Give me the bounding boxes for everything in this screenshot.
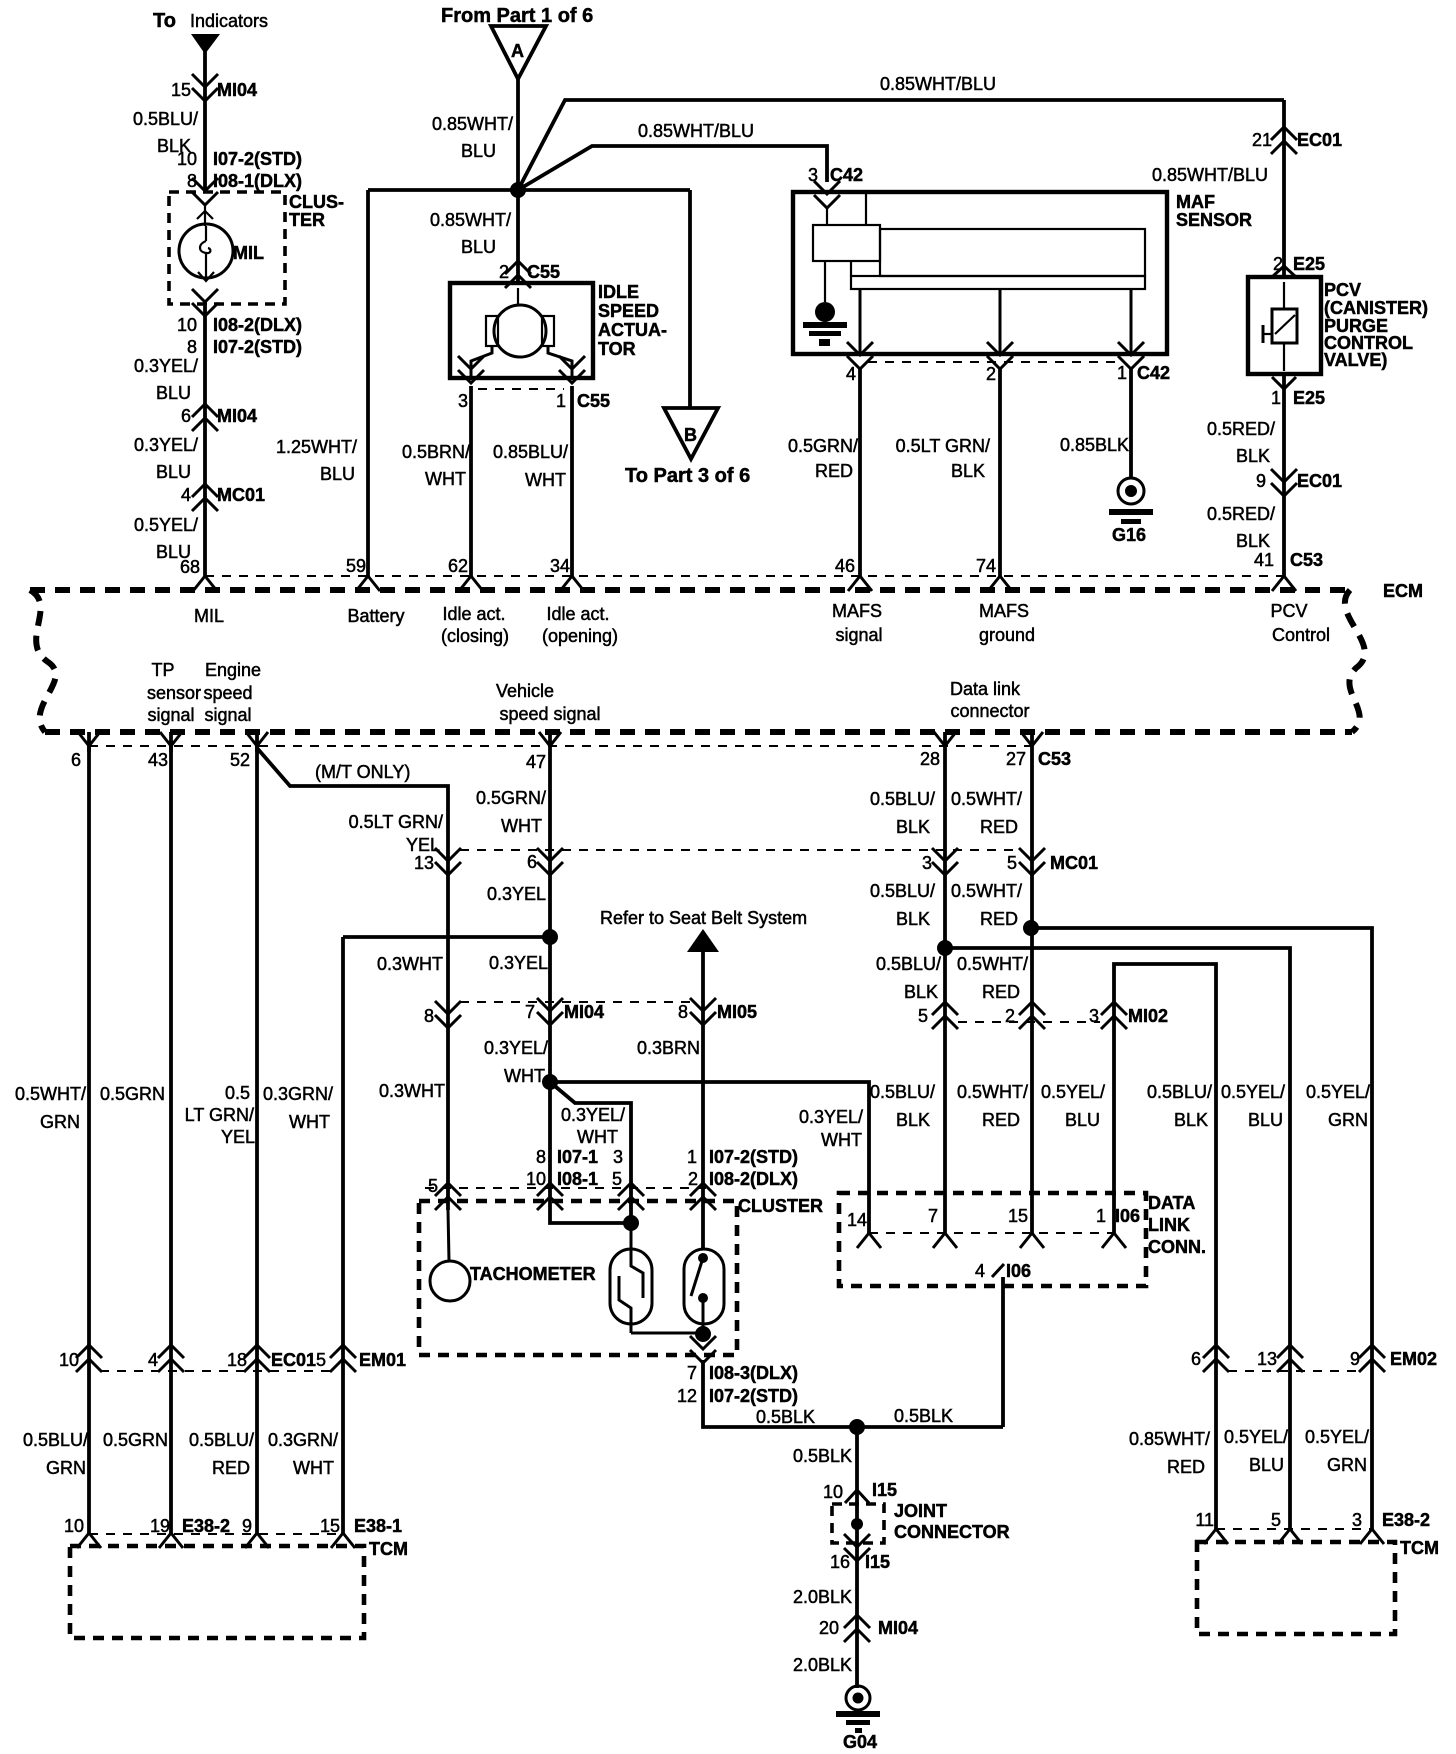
TCM connector dashed line bbox=[1216, 1528, 1372, 1530]
wire K-line tap to right bbox=[945, 948, 1290, 1529]
svg-text:BLK: BLK bbox=[896, 1110, 930, 1130]
connector EM02 pin 6 bbox=[1191, 1345, 1229, 1372]
wire label 0.3YEL/BLU bbox=[134, 435, 198, 482]
ECM pin label Vehicle speed signal bbox=[496, 681, 601, 724]
ground G04 bbox=[836, 1686, 880, 1752]
svg-text:5: 5 bbox=[428, 1176, 438, 1196]
dashed connector row MI02 bbox=[958, 1021, 1100, 1023]
cluster exit connector bbox=[690, 1336, 716, 1363]
svg-text:TCM: TCM bbox=[369, 1539, 408, 1559]
svg-text:0.5GRN/: 0.5GRN/ bbox=[788, 436, 858, 456]
wire label 2.0BLK bbox=[793, 1587, 852, 1607]
svg-text:BLK: BLK bbox=[1174, 1110, 1208, 1130]
svg-text:TCM: TCM bbox=[1400, 1538, 1439, 1558]
cluster box bbox=[419, 1201, 737, 1355]
svg-text:PCV: PCV bbox=[1270, 601, 1307, 621]
wire engine speed signal bbox=[169, 746, 173, 1533]
connector pin 8 bbox=[424, 1001, 461, 1028]
MAF internal element bbox=[813, 194, 1145, 289]
wire data link L (27) bbox=[1030, 752, 1034, 1233]
tachometer bbox=[430, 1210, 470, 1301]
cluster entry connector bbox=[192, 178, 218, 205]
svg-text:CLUS-: CLUS- bbox=[289, 192, 344, 212]
svg-text:I15: I15 bbox=[865, 1552, 890, 1572]
svg-text:0.5BLU/: 0.5BLU/ bbox=[870, 881, 935, 901]
wire label 0.5GRN bbox=[100, 1084, 165, 1104]
wire label 0.5WHT/GRN bbox=[15, 1084, 86, 1132]
svg-text:RED: RED bbox=[980, 817, 1018, 837]
wire label 1.25WHT/BLU bbox=[276, 437, 357, 484]
cluster entry connectors bbox=[537, 1183, 644, 1210]
svg-text:TP: TP bbox=[151, 660, 174, 680]
motor M1 (idle actuator) bbox=[486, 288, 554, 357]
ECM connector dashed line C53 top bbox=[205, 575, 1284, 577]
svg-text:GRN: GRN bbox=[46, 1458, 86, 1478]
svg-text:connector: connector bbox=[950, 701, 1029, 721]
wire label 0.3YEL bbox=[487, 884, 546, 904]
MAF internal ground bbox=[803, 261, 847, 346]
wire MAF pin 1 bbox=[1118, 289, 1144, 369]
svg-text:0.5RED/: 0.5RED/ bbox=[1207, 419, 1275, 439]
svg-text:RED: RED bbox=[980, 909, 1018, 929]
svg-text:15: 15 bbox=[1008, 1206, 1028, 1226]
svg-text:TACHOMETER: TACHOMETER bbox=[470, 1264, 596, 1284]
svg-text:7: 7 bbox=[525, 1002, 535, 1022]
wire DLC pin 4 ground bbox=[1001, 1277, 1005, 1427]
svg-text:15: 15 bbox=[171, 80, 191, 100]
connector pin 13 bbox=[414, 848, 461, 875]
svg-text:0.3YEL/: 0.3YEL/ bbox=[561, 1105, 625, 1125]
connector I08-2(DLX) pin 10 / I07-2(STD) pin 8 bbox=[177, 315, 302, 357]
wire label 0.85WHT/BLU ISA bbox=[430, 210, 511, 257]
connector MI02 pin 3 bbox=[1089, 1002, 1168, 1029]
svg-text:0.85WHT/: 0.85WHT/ bbox=[432, 114, 513, 134]
TCM connector dashed line bbox=[89, 1533, 343, 1535]
ECM connector dashed line bottom bbox=[89, 745, 1032, 747]
DLC pin 15 bbox=[1008, 1206, 1044, 1248]
svg-text:0.85WHT/: 0.85WHT/ bbox=[430, 210, 511, 230]
svg-text:BLU: BLU bbox=[1065, 1110, 1100, 1130]
svg-text:BLU: BLU bbox=[156, 462, 191, 482]
node tach tap bbox=[542, 1074, 558, 1090]
svg-text:34: 34 bbox=[550, 556, 570, 576]
svg-text:I08-1: I08-1 bbox=[557, 1169, 598, 1189]
wire label 0.3WHT bbox=[379, 1081, 445, 1101]
cluster entry pin 5 bbox=[428, 1176, 461, 1210]
wire M/T branch bbox=[257, 748, 448, 1210]
connector I07-2(STD) pin 1 / I08-2(DLX) pin 2 bbox=[687, 1147, 798, 1189]
wire label 0.5BLU/BLK bbox=[133, 109, 198, 156]
label PCV (CANISTER) PURGE CONTROL VALVE) bbox=[1324, 280, 1428, 370]
svg-text:I07-2(STD): I07-2(STD) bbox=[213, 149, 302, 169]
svg-text:EM02: EM02 bbox=[1390, 1349, 1437, 1369]
svg-text:3: 3 bbox=[1089, 1006, 1099, 1026]
wire cluster ground 0.5BLK bbox=[703, 1360, 1003, 1427]
svg-text:C53: C53 bbox=[1038, 749, 1071, 769]
cluster exit connector bbox=[192, 272, 218, 316]
svg-text:Data link: Data link bbox=[950, 679, 1021, 699]
svg-text:0.3YEL: 0.3YEL bbox=[489, 953, 548, 973]
wire label 0.3WHT bbox=[377, 954, 443, 974]
svg-text:0.5BLK: 0.5BLK bbox=[756, 1407, 815, 1427]
label To Part 3 of 6 bbox=[625, 465, 750, 487]
svg-text:8: 8 bbox=[187, 337, 197, 357]
connector MI04 pin 15 bbox=[171, 74, 257, 101]
svg-text:I07-2(STD): I07-2(STD) bbox=[709, 1386, 798, 1406]
svg-text:BLU: BLU bbox=[156, 383, 191, 403]
svg-text:0.5BRN/: 0.5BRN/ bbox=[402, 442, 470, 462]
svg-text:BLU: BLU bbox=[1249, 1455, 1284, 1475]
lamp MIL bbox=[179, 224, 264, 278]
wire label 0.5WHT/RED bbox=[951, 789, 1022, 837]
svg-text:5: 5 bbox=[1271, 1510, 1281, 1530]
wire label 0.5WHT/RED bbox=[957, 954, 1028, 1002]
wire PCV to ECM bbox=[1282, 374, 1286, 577]
svg-text:WHT: WHT bbox=[577, 1127, 618, 1147]
label CLUSTER bbox=[738, 1196, 823, 1216]
MAF sensor box bbox=[793, 192, 1167, 354]
svg-text:CONN.: CONN. bbox=[1148, 1237, 1206, 1257]
wire label 0.85WHT/BLU MAF feed bbox=[638, 121, 754, 141]
connector MI04 pin 7 bbox=[525, 998, 604, 1025]
wire label 0.5WHT/RED bbox=[957, 1082, 1028, 1130]
wire to data link pin 14 bbox=[550, 1082, 869, 1233]
svg-text:MI04: MI04 bbox=[217, 80, 257, 100]
svg-text:0.5YEL/: 0.5YEL/ bbox=[134, 515, 198, 535]
dashed connector row EC01/EM01 bbox=[100, 1370, 332, 1372]
connector C55 pin 2 bbox=[499, 261, 560, 288]
svg-text:3: 3 bbox=[1352, 1510, 1362, 1530]
svg-text:0.85WHT/: 0.85WHT/ bbox=[1129, 1429, 1210, 1449]
wire seat belt / cluster feed bbox=[701, 950, 705, 1249]
svg-text:21: 21 bbox=[1252, 130, 1272, 150]
wire diagnostic loop bbox=[1114, 964, 1216, 1529]
connector I07-2(STD) pin 10 / I08-1(DLX) pin 8 bbox=[177, 149, 302, 191]
svg-text:SENSOR: SENSOR bbox=[1176, 210, 1252, 230]
svg-text:Indicators: Indicators bbox=[190, 11, 268, 31]
svg-text:signal: signal bbox=[835, 625, 882, 645]
wire label 0.5BLU/BLK bbox=[1147, 1082, 1212, 1130]
svg-text:G04: G04 bbox=[843, 1732, 877, 1752]
svg-text:I15: I15 bbox=[872, 1480, 897, 1500]
label MAF SENSOR bbox=[1176, 192, 1252, 230]
node speed signal tap bbox=[542, 929, 558, 945]
svg-text:2: 2 bbox=[986, 364, 996, 384]
svg-text:1.25WHT/: 1.25WHT/ bbox=[276, 437, 357, 457]
ECM pin label MIL bbox=[194, 606, 224, 626]
connector C42 pins 4 2 1 bbox=[846, 363, 1170, 384]
svg-text:1: 1 bbox=[1096, 1206, 1106, 1226]
wire label 0.3YEL/BLU bbox=[134, 356, 198, 403]
svg-text:0.3YEL/: 0.3YEL/ bbox=[134, 435, 198, 455]
svg-text:MC01: MC01 bbox=[1050, 853, 1098, 873]
PCV solenoid symbol bbox=[1263, 282, 1297, 371]
svg-text:0.5YEL/: 0.5YEL/ bbox=[1221, 1082, 1285, 1102]
svg-text:I08-2(DLX): I08-2(DLX) bbox=[709, 1169, 798, 1189]
svg-text:BLU: BLU bbox=[1248, 1110, 1283, 1130]
connector MC01 pin 3 bbox=[922, 848, 958, 875]
svg-text:BLK: BLK bbox=[896, 817, 930, 837]
wire L-line tap to right bbox=[1031, 928, 1372, 1529]
ECM pin 62 bbox=[448, 556, 483, 591]
wire from A bbox=[516, 79, 520, 190]
svg-text:signal: signal bbox=[204, 705, 251, 725]
connector C55 pins 3 and 1 bbox=[458, 391, 610, 411]
svg-text:10: 10 bbox=[823, 1482, 843, 1502]
wire label 0.5BLU/BLK bbox=[870, 881, 935, 929]
svg-text:0.5GRN: 0.5GRN bbox=[103, 1430, 168, 1450]
joint connector box bbox=[832, 1504, 884, 1543]
svg-text:7: 7 bbox=[687, 1363, 697, 1383]
svg-text:B: B bbox=[684, 425, 697, 445]
svg-text:4: 4 bbox=[975, 1261, 985, 1281]
svg-text:E25: E25 bbox=[1293, 254, 1325, 274]
connector E25 pin 1 bbox=[1271, 377, 1325, 408]
svg-text:0.5BLU/: 0.5BLU/ bbox=[870, 1082, 935, 1102]
connector MC01 pin 4 bbox=[181, 484, 265, 511]
svg-text:RED: RED bbox=[982, 1110, 1020, 1130]
svg-text:0.3YEL/: 0.3YEL/ bbox=[484, 1038, 548, 1058]
svg-text:A: A bbox=[511, 41, 524, 61]
svg-text:2.0BLK: 2.0BLK bbox=[793, 1655, 852, 1675]
ground G16 bbox=[1109, 478, 1153, 545]
wire label 2.0BLK bbox=[793, 1655, 852, 1675]
connector pin 6 bbox=[527, 848, 563, 875]
wire ground drop 0.5BLK bbox=[855, 1427, 859, 1504]
svg-text:MAFS: MAFS bbox=[832, 601, 882, 621]
ECM pin 74 bbox=[976, 556, 1012, 591]
svg-text:WHT: WHT bbox=[525, 470, 566, 490]
svg-text:52: 52 bbox=[230, 750, 250, 770]
TCM pin 10 bbox=[64, 1516, 101, 1548]
connector I07-1 pins 8/3 I08-1 pins 10/5 bbox=[526, 1147, 623, 1189]
svg-text:WHT: WHT bbox=[289, 1112, 330, 1132]
wire to MAF C42 bbox=[518, 146, 827, 190]
svg-text:0.3GRN/: 0.3GRN/ bbox=[263, 1084, 333, 1104]
svg-text:(closing): (closing) bbox=[441, 626, 509, 646]
node junction A bbox=[510, 182, 526, 198]
wire idle act opening to ECM bbox=[570, 386, 574, 577]
svg-text:C42: C42 bbox=[830, 165, 863, 185]
svg-text:20: 20 bbox=[819, 1618, 839, 1638]
connector MC01 pin 5 bbox=[1007, 848, 1098, 875]
svg-text:GRN: GRN bbox=[1328, 1110, 1368, 1130]
svg-text:0.85BLK: 0.85BLK bbox=[1060, 435, 1129, 455]
svg-text:1: 1 bbox=[1271, 388, 1281, 408]
svg-text:TER: TER bbox=[289, 210, 325, 230]
svg-text:E38-2: E38-2 bbox=[182, 1516, 230, 1536]
svg-text:sensor: sensor bbox=[147, 683, 201, 703]
svg-text:0.5BLU/: 0.5BLU/ bbox=[876, 954, 941, 974]
svg-text:0.5GRN/: 0.5GRN/ bbox=[476, 788, 546, 808]
svg-text:RED: RED bbox=[1167, 1457, 1205, 1477]
svg-text:12: 12 bbox=[677, 1386, 697, 1406]
wire label 0.85WHT/BLU bbox=[1152, 165, 1268, 185]
wire MIL to ECM bbox=[203, 304, 207, 577]
wire to EC01 (top rail) bbox=[518, 100, 1284, 190]
svg-text:0.5WHT/: 0.5WHT/ bbox=[15, 1084, 86, 1104]
svg-text:0.5RED/: 0.5RED/ bbox=[1207, 504, 1275, 524]
DLC connector dashed line bbox=[869, 1232, 1114, 1234]
ECM pin label Battery bbox=[347, 606, 404, 626]
wire MAFS ground bbox=[998, 368, 1002, 577]
svg-text:0.3WHT: 0.3WHT bbox=[377, 954, 443, 974]
reed switch bbox=[684, 1249, 724, 1334]
svg-text:BLK: BLK bbox=[951, 461, 985, 481]
svg-text:RED: RED bbox=[982, 982, 1020, 1002]
svg-text:0.5YEL/: 0.5YEL/ bbox=[1041, 1082, 1105, 1102]
svg-text:3: 3 bbox=[922, 853, 932, 873]
wire label 0.5BLU/BLK bbox=[870, 789, 935, 837]
svg-text:0.3YEL/: 0.3YEL/ bbox=[799, 1107, 863, 1127]
svg-text:C55: C55 bbox=[577, 391, 610, 411]
svg-text:WHT: WHT bbox=[293, 1458, 334, 1478]
ECM pin 68 bbox=[180, 557, 217, 591]
connector E25 pin 2 bbox=[1272, 254, 1325, 277]
svg-text:5: 5 bbox=[918, 1006, 928, 1026]
wire idle act closing to ECM bbox=[469, 386, 473, 577]
svg-text:16: 16 bbox=[830, 1552, 850, 1572]
wire TP sensor signal bbox=[87, 746, 91, 1533]
svg-text:74: 74 bbox=[976, 556, 996, 576]
svg-text:9: 9 bbox=[1350, 1349, 1360, 1369]
label TCM bbox=[369, 1539, 408, 1559]
svg-text:Engine: Engine bbox=[205, 660, 261, 680]
wire label 0.5BLU/BLK bbox=[876, 954, 941, 1002]
svg-text:0.5LT GRN/: 0.5LT GRN/ bbox=[349, 812, 443, 832]
DLC pin 7 bbox=[928, 1206, 957, 1248]
svg-text:0.5WHT/: 0.5WHT/ bbox=[951, 789, 1022, 809]
connector EM02 pin 9 bbox=[1350, 1345, 1437, 1372]
wire MAF to G16 bbox=[1129, 368, 1133, 478]
svg-text:0.3BRN: 0.3BRN bbox=[637, 1038, 700, 1058]
dashed connector row EM02 bbox=[1228, 1370, 1360, 1372]
wire PCV feed bbox=[1282, 100, 1286, 277]
connector I08-3(DLX) pin 7 / I07-2(STD) pin 12 bbox=[677, 1363, 798, 1406]
svg-text:18: 18 bbox=[227, 1350, 247, 1370]
svg-text:(opening): (opening) bbox=[542, 626, 618, 646]
ECM bottom pin 47 bbox=[526, 732, 561, 772]
ECM box bottom edge bbox=[45, 729, 1352, 735]
svg-text:SPEED: SPEED bbox=[598, 301, 659, 321]
wire MAF pin 4 bbox=[847, 289, 873, 369]
wire label 0.5BLU/BLK bbox=[870, 1082, 935, 1130]
svg-text:MI04: MI04 bbox=[564, 1002, 604, 1022]
svg-text:0.5BLU/: 0.5BLU/ bbox=[23, 1430, 88, 1450]
wire label 0.5BRN/WHT bbox=[402, 442, 470, 489]
svg-text:62: 62 bbox=[448, 556, 468, 576]
svg-text:From Part 1 of 6: From Part 1 of 6 bbox=[441, 5, 593, 27]
svg-text:0.5BLU/: 0.5BLU/ bbox=[1147, 1082, 1212, 1102]
PCV valve box bbox=[1248, 277, 1321, 374]
svg-text:I08-1(DLX): I08-1(DLX) bbox=[213, 171, 302, 191]
svg-text:MI05: MI05 bbox=[717, 1002, 757, 1022]
svg-text:GRN: GRN bbox=[1327, 1455, 1367, 1475]
wire ISA opening branch bbox=[548, 346, 572, 378]
svg-text:I07-1: I07-1 bbox=[557, 1147, 598, 1167]
ECM pin 46 bbox=[835, 556, 872, 591]
TCM pin 11 bbox=[1195, 1510, 1228, 1544]
svg-text:3: 3 bbox=[458, 391, 468, 411]
wire label 0.5BLU/GRN bbox=[23, 1430, 88, 1478]
arrow seat belt system bbox=[687, 929, 719, 952]
DLC pin 1 I06 bbox=[1096, 1206, 1140, 1248]
svg-text:MI02: MI02 bbox=[1128, 1006, 1168, 1026]
svg-text:47: 47 bbox=[526, 752, 546, 772]
TCM pin 15 E38-1 bbox=[320, 1516, 402, 1548]
svg-text:59: 59 bbox=[346, 556, 366, 576]
connector MI04 pin 6 bbox=[181, 404, 257, 431]
connector MI02 pin 5 bbox=[918, 1002, 958, 1029]
svg-text:68: 68 bbox=[180, 557, 200, 577]
ECM pin label Engine speed signal bbox=[203, 660, 261, 725]
wire label 0.5YEL/BLU bbox=[134, 515, 198, 562]
svg-text:MAFS: MAFS bbox=[979, 601, 1029, 621]
TCM pin 5 bbox=[1271, 1510, 1302, 1544]
svg-text:10: 10 bbox=[64, 1516, 84, 1536]
data link connector box bbox=[839, 1193, 1146, 1286]
svg-text:LINK: LINK bbox=[1148, 1215, 1190, 1235]
svg-text:1: 1 bbox=[1117, 363, 1127, 383]
svg-text:5: 5 bbox=[1007, 853, 1017, 873]
svg-text:8: 8 bbox=[424, 1006, 434, 1026]
svg-text:41: 41 bbox=[1254, 550, 1274, 570]
svg-text:1: 1 bbox=[556, 391, 566, 411]
svg-text:0.3YEL/: 0.3YEL/ bbox=[134, 356, 198, 376]
svg-text:WHT: WHT bbox=[425, 469, 466, 489]
arrow to indicators bbox=[191, 34, 220, 54]
wire label 0.85BLK bbox=[1060, 435, 1129, 455]
svg-text:0.85WHT/BLU: 0.85WHT/BLU bbox=[638, 121, 754, 141]
TCM pin 19 E38-2 bbox=[150, 1516, 230, 1548]
label IDLE SPEED ACTUA-TOR bbox=[598, 282, 667, 359]
connector EC01 pin 21 bbox=[1252, 127, 1342, 154]
svg-text:0.3WHT: 0.3WHT bbox=[379, 1081, 445, 1101]
svg-text:YEL: YEL bbox=[406, 835, 440, 855]
node L-line tap bbox=[1023, 920, 1039, 936]
svg-text:CLUSTER: CLUSTER bbox=[738, 1196, 823, 1216]
svg-text:0.5YEL/: 0.5YEL/ bbox=[1305, 1427, 1369, 1447]
svg-text:6: 6 bbox=[527, 852, 537, 872]
svg-text:2: 2 bbox=[688, 1169, 698, 1189]
svg-text:C55: C55 bbox=[527, 262, 560, 282]
svg-text:13: 13 bbox=[1257, 1349, 1277, 1369]
connector EC01 pin 18 bbox=[227, 1345, 316, 1372]
svg-text:10: 10 bbox=[526, 1169, 546, 1189]
wire label 0.3YEL/WHT bbox=[484, 1038, 548, 1086]
svg-text:28: 28 bbox=[920, 749, 940, 769]
svg-text:0.5WHT/: 0.5WHT/ bbox=[957, 1082, 1028, 1102]
svg-text:ground: ground bbox=[979, 625, 1035, 645]
DLC pin 4 I06 bbox=[975, 1261, 1031, 1281]
svg-text:speed signal: speed signal bbox=[499, 704, 600, 724]
cluster entry connector bbox=[690, 1183, 716, 1210]
node ground junction bbox=[849, 1419, 865, 1435]
svg-text:5: 5 bbox=[612, 1169, 622, 1189]
svg-text:YEL: YEL bbox=[221, 1127, 255, 1147]
svg-text:43: 43 bbox=[148, 750, 168, 770]
svg-text:MIL: MIL bbox=[233, 243, 264, 263]
svg-text:6: 6 bbox=[1191, 1349, 1201, 1369]
svg-text:0.5: 0.5 bbox=[225, 1083, 250, 1103]
wire label 0.5 LT GRN/YEL bbox=[185, 1083, 255, 1147]
connector EC01 pin 9 bbox=[1256, 469, 1342, 496]
svg-text:MI04: MI04 bbox=[217, 406, 257, 426]
svg-text:EC01: EC01 bbox=[271, 1350, 316, 1370]
label TCM bbox=[1400, 1538, 1439, 1558]
svg-text:I08-3(DLX): I08-3(DLX) bbox=[709, 1363, 798, 1383]
svg-text:10: 10 bbox=[177, 149, 197, 169]
